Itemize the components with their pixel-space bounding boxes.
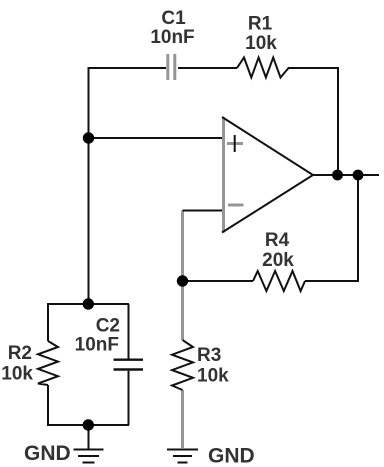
svg-text:R3: R3 [197, 345, 221, 366]
svg-text:10nF: 10nF [75, 334, 119, 355]
svg-text:C1: C1 [161, 8, 186, 29]
svg-text:GND: GND [24, 442, 71, 465]
svg-text:GND: GND [208, 444, 255, 467]
svg-text:10k: 10k [197, 366, 229, 387]
svg-text:R1: R1 [248, 14, 273, 35]
svg-text:10k: 10k [1, 363, 33, 384]
svg-text:10k: 10k [245, 33, 277, 54]
svg-text:R4: R4 [265, 230, 290, 251]
svg-text:R2: R2 [8, 343, 32, 364]
svg-text:10nF: 10nF [150, 27, 194, 48]
svg-text:20k: 20k [262, 250, 294, 271]
